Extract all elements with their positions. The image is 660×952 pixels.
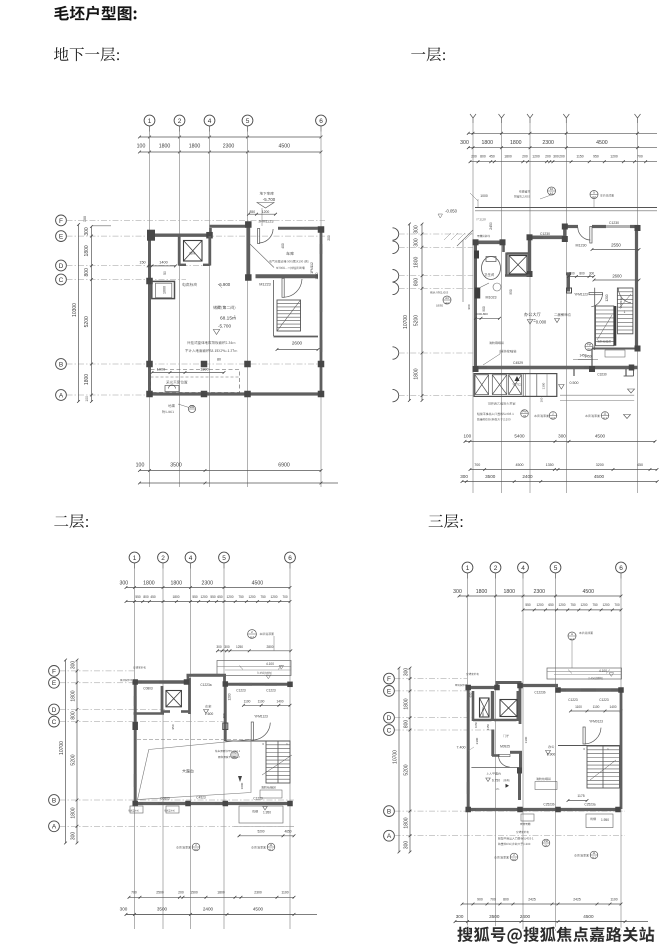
- plan4 top wall right: [557, 688, 622, 691]
- plan2 staircase right flight: [617, 288, 633, 334]
- plan2 left dims: [414, 223, 424, 402]
- plan1 row F grid line: [67, 219, 326, 221]
- plan2 porch X panel: [475, 375, 489, 395]
- plan1 top-right wall: [278, 227, 323, 230]
- svg-text:1800: 1800: [159, 144, 171, 150]
- svg-text:F: F: [387, 676, 391, 683]
- plan4 column: [555, 807, 561, 813]
- plan1 grid bubble 1: [144, 115, 155, 126]
- plan2 top wall right a: [563, 225, 578, 228]
- plan1 column: [244, 361, 251, 368]
- svg-text:C0503: C0503: [160, 797, 170, 801]
- svg-text:C: C: [387, 727, 392, 734]
- plan4 top wall left: [467, 686, 498, 689]
- svg-text:4500: 4500: [516, 463, 524, 467]
- svg-text:400: 400: [281, 243, 285, 249]
- svg-text:5: 5: [222, 555, 226, 562]
- plan3 roof terrace outline: [217, 661, 291, 676]
- plan2 porch lower: [474, 374, 557, 397]
- svg-text:4: 4: [189, 555, 193, 562]
- svg-text:1: 1: [286, 742, 288, 746]
- plan1 right wall window: [320, 244, 322, 254]
- plan4 wall at door: [492, 754, 500, 757]
- plan2 grid line top: [470, 114, 476, 123]
- svg-text:3: 3: [583, 747, 585, 751]
- svg-text:D: D: [387, 715, 392, 722]
- svg-text:4-2: 4-2: [250, 635, 254, 639]
- svg-text:M0925: M0925: [500, 745, 510, 749]
- svg-text:4500: 4500: [583, 914, 594, 919]
- svg-text:1450: 1450: [579, 354, 586, 358]
- svg-text:2400: 2400: [203, 907, 214, 912]
- svg-text:50: 50: [163, 271, 167, 275]
- plan2 vertical grid line: [565, 123, 567, 493]
- plan1 right wall window3: [320, 340, 322, 352]
- plan1 column: [245, 221, 252, 228]
- svg-text:1800: 1800: [510, 140, 522, 146]
- plan2 vertical grid line: [472, 123, 474, 493]
- svg-text:300: 300: [119, 580, 128, 586]
- plan2 ramp edge: [462, 240, 464, 302]
- svg-text:1150: 1150: [576, 155, 583, 159]
- svg-text:1200: 1200: [262, 210, 270, 214]
- plan2 vertical grid line: [529, 123, 531, 493]
- plan4 door arc: [583, 727, 585, 744]
- svg-text:4-6: 4-6: [512, 857, 516, 861]
- svg-text:1500: 1500: [190, 891, 198, 895]
- svg-text:800: 800: [480, 155, 486, 159]
- plan4 wall jog horiz: [510, 751, 522, 754]
- svg-text:C1223: C1223: [599, 698, 609, 702]
- svg-text:5200: 5200: [404, 764, 410, 775]
- plan2 wall end return: [633, 369, 635, 376]
- svg-text:4500: 4500: [594, 474, 605, 479]
- plan2 left total dim: [403, 223, 411, 402]
- svg-text:3500: 3500: [489, 914, 500, 919]
- plan3 circled note A: [248, 630, 257, 639]
- plan2 porch X panel: [509, 375, 522, 395]
- plan2 elevator car: [509, 256, 527, 275]
- plan1 grid bubble 5: [242, 115, 253, 126]
- plan2 column: [562, 224, 568, 230]
- svg-text:1000: 1000: [157, 368, 165, 372]
- svg-text:2: 2: [251, 630, 253, 634]
- svg-text:400 450: 400 450: [481, 707, 485, 717]
- plan3 hydrant dashed: [260, 790, 282, 798]
- plan4 column: [517, 683, 523, 689]
- svg-text:700: 700: [490, 897, 496, 901]
- plan1 left exterior wall: [148, 234, 151, 396]
- section label floor3: [429, 514, 463, 528]
- svg-text:1100: 1100: [281, 891, 288, 895]
- plan2 column: [589, 366, 595, 372]
- svg-text:M1223: M1223: [259, 283, 271, 287]
- plan1 row bubble F: [56, 215, 67, 226]
- plan3 column: [287, 682, 293, 688]
- svg-text:1800: 1800: [71, 807, 77, 818]
- plan4 column: [465, 807, 471, 813]
- plan4 staircase: [587, 746, 620, 788]
- svg-text:C0803: C0803: [143, 687, 153, 691]
- svg-text:300: 300: [589, 272, 595, 276]
- plan1 stair break diagonal: [277, 300, 301, 331]
- svg-text:4500: 4500: [278, 144, 290, 150]
- plan1 grid bubble 6: [316, 115, 327, 126]
- plan2 column: [562, 236, 568, 242]
- svg-text:450: 450: [150, 595, 156, 599]
- svg-text:10700: 10700: [393, 750, 399, 764]
- svg-text:800: 800: [143, 595, 149, 599]
- plan4 wall jog vert: [519, 752, 522, 768]
- plan1 bottom outer line: [139, 482, 338, 484]
- plan3 row bubble D: [49, 704, 60, 715]
- plan4 terrace right wall: [518, 768, 521, 801]
- plan1 column: [146, 361, 153, 368]
- svg-text:F: F: [59, 218, 63, 225]
- svg-text:1050: 1050: [474, 722, 478, 728]
- plan2 vertical grid line: [637, 123, 639, 493]
- svg-text:C1223: C1223: [266, 689, 276, 693]
- svg-text:900: 900: [467, 304, 471, 309]
- plan4 column: [618, 687, 624, 693]
- plan1 top wall E-row: [148, 233, 211, 236]
- plan2 column: [635, 346, 641, 352]
- plan2 row bubble F (clipped half): [393, 228, 399, 240]
- svg-text:950: 950: [593, 155, 599, 159]
- plan2 circled note 10/A3: [519, 190, 530, 193]
- svg-text:YFM1123: YFM1123: [254, 715, 268, 719]
- svg-text:300: 300: [558, 434, 566, 439]
- plan1 top-right window near g6: [304, 227, 318, 229]
- plan3 terrace roof polygon 大露台: [138, 740, 252, 800]
- plan1 vertical grid line: [179, 132, 181, 488]
- svg-text:1200: 1200: [610, 155, 618, 159]
- svg-text:4-1: 4-1: [603, 416, 607, 420]
- plan1 row B grid line: [67, 363, 323, 365]
- svg-text:700: 700: [282, 595, 288, 599]
- plan2 washbasin: [493, 283, 501, 291]
- svg-text:6.750: 6.750: [492, 778, 500, 782]
- plan1 M1223 door: [282, 278, 284, 297]
- plan4 elevator shafts: [472, 691, 475, 721]
- svg-text:450: 450: [637, 463, 643, 467]
- plan4 elevator car 2: [500, 700, 517, 717]
- svg-text:C3230: C3230: [597, 373, 607, 377]
- plan1 top wall grid4-grid5: [210, 225, 249, 228]
- plan1 staircase: [277, 300, 301, 331]
- svg-text:1400: 1400: [159, 261, 167, 265]
- plan1 column: [244, 391, 251, 398]
- svg-text:1150: 1150: [486, 724, 490, 730]
- plan2 2550 dim line: [591, 248, 641, 251]
- plan2 M1230 door: [590, 227, 592, 244]
- svg-text:C1223a: C1223a: [200, 683, 211, 687]
- plan1 floor drain box: [165, 386, 179, 392]
- svg-text:5400: 5400: [514, 434, 525, 439]
- plan4 left total dim: [393, 667, 401, 854]
- plan2 fire hydrant label: [500, 350, 516, 353]
- svg-text:700: 700: [474, 463, 480, 467]
- plan2 column: [635, 225, 641, 231]
- plan3 top dimension row: [119, 580, 291, 589]
- plan4 bottom dim row2: [454, 914, 627, 923]
- plan3 YFM1123 door: [251, 722, 253, 740]
- plan2 wall stub a: [573, 369, 575, 376]
- plan3 row bubble C: [49, 716, 60, 727]
- plan2 canopy eave lines: [475, 207, 657, 209]
- svg-text:4-1: 4-1: [269, 847, 273, 851]
- plan2 flag markers: [628, 389, 635, 393]
- plan1 row C grid line: [67, 279, 187, 281]
- plan2 wall below stair: [592, 348, 638, 350]
- plan3 vertical grid line: [223, 569, 225, 930]
- plan2 row bubble E (clipped half): [393, 241, 399, 253]
- svg-text:1200: 1200: [200, 595, 207, 599]
- svg-text:YFM0123: YFM0123: [589, 720, 603, 724]
- plan4 vertical grid line: [467, 579, 469, 932]
- plan4 vertical grid line: [522, 579, 524, 932]
- svg-text:2600: 2600: [292, 341, 303, 346]
- svg-text:1800: 1800: [84, 374, 90, 385]
- svg-text:4-6: 4-6: [194, 847, 198, 851]
- svg-text:1200: 1200: [228, 693, 232, 700]
- plan3 column: [184, 679, 190, 685]
- svg-text:1: 1: [466, 565, 470, 572]
- plan3 canopy dashed box 雨棚: [239, 806, 283, 823]
- plan2 wall stub b: [625, 369, 627, 376]
- plan1 column: [318, 361, 325, 368]
- plan4 roof terrace outline: [547, 668, 622, 679]
- plan4 row bubble F: [384, 673, 395, 684]
- plan2 M1023 door: [475, 288, 481, 299]
- plan4 top dimension row: [453, 589, 622, 598]
- svg-text:4.100: 4.100: [266, 662, 274, 666]
- svg-text:4500: 4500: [583, 589, 595, 595]
- plan4 grid bubble 1: [462, 562, 473, 573]
- svg-text:5200: 5200: [71, 754, 77, 765]
- svg-text:1000: 1000: [163, 286, 167, 294]
- plan1 row bubble D: [56, 260, 67, 271]
- svg-text:1350: 1350: [546, 463, 554, 467]
- plan2 stair left boundary: [594, 288, 596, 350]
- svg-text:1800: 1800: [404, 817, 410, 828]
- svg-text:1: 1: [624, 310, 626, 314]
- plan3 column: [223, 801, 229, 807]
- svg-text:700: 700: [131, 891, 137, 895]
- plan2 top small dims row: [469, 155, 657, 164]
- svg-text:3: 3: [262, 742, 264, 746]
- svg-text:-5.700: -5.700: [263, 197, 276, 202]
- svg-text:1200: 1200: [270, 595, 277, 599]
- svg-text:1200: 1200: [605, 294, 609, 301]
- plan1 M1223 interior wall: [256, 274, 319, 278]
- svg-text:2550: 2550: [611, 243, 621, 248]
- svg-text:4: 4: [521, 565, 525, 572]
- plan3 column: [185, 801, 191, 807]
- plan3 top wall right: [224, 683, 291, 686]
- svg-text:A2: A2: [592, 195, 596, 199]
- svg-text:5200: 5200: [414, 315, 420, 326]
- svg-text:E: E: [52, 680, 57, 687]
- plan2 0.500 level flag: [559, 385, 565, 390]
- svg-text:500: 500: [569, 272, 575, 276]
- plan3 interior wall at grid5: [224, 684, 227, 741]
- plan2 row bubble C (clipped half): [393, 282, 399, 294]
- svg-text:1400: 1400: [609, 705, 616, 709]
- svg-text:4500: 4500: [252, 580, 264, 586]
- plan4 grid bubble 6: [616, 562, 627, 573]
- plan4 left dims: [404, 667, 412, 854]
- plan2 stair middle rail dark: [614, 306, 617, 346]
- plan1 JFM1223 door: [258, 229, 260, 244]
- svg-text:4650: 4650: [284, 829, 291, 833]
- svg-text:A: A: [387, 833, 392, 840]
- plan3 vertical grid line: [190, 569, 192, 930]
- plan4 row bubble E: [384, 686, 395, 697]
- svg-text:550: 550: [210, 595, 216, 599]
- svg-text:950: 950: [509, 289, 513, 295]
- plan1 left dim column: [84, 225, 93, 403]
- plan3 vertical grid line: [162, 569, 164, 930]
- plan1 top dimension row: [137, 136, 323, 150]
- svg-text:650: 650: [548, 603, 554, 607]
- section label basement: [54, 47, 119, 61]
- svg-text:900: 900: [477, 897, 483, 901]
- svg-text:100: 100: [136, 463, 145, 469]
- plan4 bottom dim row1: [461, 897, 623, 905]
- svg-text:1200: 1200: [248, 595, 255, 599]
- plan2 2600 dim line: [593, 279, 641, 282]
- svg-text:A3: A3: [550, 192, 554, 196]
- plan2 bottom dim row3: [460, 474, 658, 483]
- svg-text:C: C: [59, 277, 64, 284]
- svg-text:300: 300: [460, 140, 469, 146]
- plan2 stair hydrant circle: [585, 343, 593, 351]
- plan1 column: [206, 232, 213, 239]
- svg-text:800: 800: [71, 711, 77, 720]
- svg-text:200: 200: [522, 155, 528, 159]
- plan3 grid bubble 2: [158, 552, 169, 563]
- svg-text:-6.900: -6.900: [218, 282, 231, 287]
- plan2 wall at grid4: [528, 236, 531, 275]
- plan1 row A grid line: [67, 394, 323, 396]
- plan1 row D grid line: [67, 265, 213, 267]
- svg-text:04: 04: [523, 414, 527, 418]
- plan3 grid bubble 6: [285, 552, 296, 563]
- plan1 2600 dim line: [276, 348, 320, 351]
- svg-text:4-6: 4-6: [551, 416, 555, 420]
- svg-text:800: 800: [404, 720, 410, 729]
- svg-text:C1223: C1223: [568, 698, 578, 702]
- section label floor2: [54, 514, 88, 528]
- plan4 top bump: [519, 682, 522, 689]
- svg-text:1: 1: [133, 555, 137, 562]
- plan1 column: [201, 391, 208, 398]
- svg-text:-5.700: -5.700: [218, 324, 231, 329]
- svg-text:1800: 1800: [481, 140, 493, 146]
- svg-text:1800: 1800: [414, 368, 420, 379]
- svg-text:A2: A2: [445, 301, 449, 305]
- plan2 column: [527, 271, 533, 277]
- svg-text:650: 650: [217, 595, 223, 599]
- svg-text:-0.050: -0.050: [445, 209, 458, 214]
- svg-text:10700: 10700: [403, 315, 409, 329]
- svg-text:100: 100: [540, 397, 544, 402]
- svg-text:1.950: 1.950: [263, 811, 271, 815]
- plan1 grid bubble 2: [174, 115, 185, 126]
- svg-text:2: 2: [178, 118, 182, 125]
- svg-text:1000: 1000: [480, 194, 488, 198]
- svg-text:6: 6: [288, 555, 292, 562]
- svg-text:04: 04: [588, 347, 591, 351]
- svg-text:300: 300: [456, 914, 464, 919]
- plan4 grid bubble 5: [550, 562, 561, 573]
- svg-text:C2523b: C2523b: [543, 803, 554, 807]
- svg-text:1.950: 1.950: [601, 818, 609, 822]
- svg-text:C1223: C1223: [236, 689, 246, 693]
- plan2 vertical grid line: [501, 123, 503, 493]
- plan1 row bubble B: [56, 359, 67, 370]
- plan4 row bubble C: [384, 725, 395, 736]
- svg-text:200: 200: [559, 155, 565, 159]
- svg-text:300: 300: [453, 589, 462, 595]
- svg-text:6: 6: [319, 118, 323, 125]
- svg-text:JFM1223: JFM1223: [259, 220, 274, 224]
- plan3 AC units below wall: [130, 806, 143, 813]
- svg-text:1200: 1200: [532, 155, 540, 159]
- plan4 top small dim row: [522, 603, 623, 611]
- plan4 column: [615, 807, 621, 813]
- svg-text:100: 100: [137, 144, 146, 150]
- plan4 canopy dashed 雨棚: [586, 814, 613, 828]
- svg-text:A4: A4: [445, 296, 449, 300]
- plan2 YFM112 door upper right: [618, 289, 631, 303]
- svg-text:450: 450: [489, 155, 495, 159]
- svg-text:C1230: C1230: [609, 221, 619, 225]
- plan2 YFM1123 door: [589, 293, 603, 295]
- plan2 distribution box on left wall: [474, 251, 479, 259]
- plan2 elevator shaft: [505, 253, 507, 276]
- svg-text:D: D: [52, 707, 57, 714]
- svg-text:38H: 38H: [232, 755, 237, 759]
- svg-text:100: 100: [85, 396, 89, 402]
- plan2 column: [527, 234, 533, 240]
- plan3 vertical grid line: [134, 569, 136, 930]
- plan2 bottom dim row1: [463, 434, 656, 443]
- svg-text:E: E: [59, 234, 64, 241]
- svg-text:1800: 1800: [217, 891, 225, 895]
- svg-text:C: C: [52, 719, 57, 726]
- plan3 row bubble B: [49, 795, 60, 806]
- svg-text:150: 150: [139, 261, 145, 265]
- svg-text:800: 800: [579, 272, 585, 276]
- svg-text:200: 200: [178, 891, 184, 895]
- section label floor1: [411, 47, 445, 61]
- svg-text:1800: 1800: [404, 698, 410, 709]
- plan2 stair break line: [597, 315, 612, 340]
- plan2 stair break line right flight: [620, 294, 632, 308]
- plan2 bathroom toilet: [482, 257, 501, 280]
- plan3 left exterior wall: [134, 681, 137, 805]
- svg-text:1800: 1800: [189, 144, 201, 150]
- plan4 dims 1100-1400: [569, 705, 622, 712]
- svg-text:1175: 1175: [577, 794, 584, 798]
- svg-text:5: 5: [554, 565, 558, 572]
- svg-text:300: 300: [460, 474, 468, 479]
- svg-text:3200: 3200: [596, 463, 604, 467]
- plan4 vertical grid line: [495, 579, 497, 932]
- svg-text:2425: 2425: [573, 897, 581, 901]
